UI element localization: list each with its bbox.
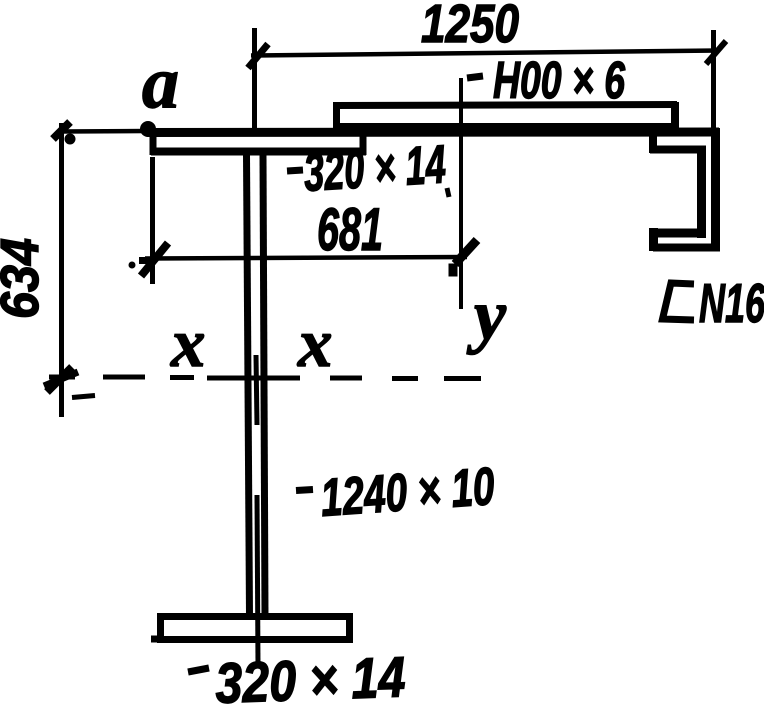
plate web 1240x10: left line	[247, 155, 250, 616]
wire bottom flange lower-left overshoot	[151, 636, 162, 643]
label dash of -1240x10	[296, 490, 313, 491]
svg-text:x: x	[297, 305, 333, 381]
node tick bottom 634	[47, 367, 72, 392]
plate brake sheet bottom line	[340, 123, 674, 128]
plate brake sheet left edge	[333, 102, 340, 131]
svg-text:N16: N16	[699, 272, 764, 334]
node point a dot	[140, 121, 156, 137]
wire extension line left of 1250	[252, 28, 257, 131]
svg-text:634: 634	[0, 238, 50, 319]
node tick left 1250	[248, 44, 268, 68]
node tick left 681	[141, 243, 168, 276]
wire web centre overdraw line	[256, 355, 257, 425]
wire connector from 634 line to point a	[61, 129, 146, 134]
channel symbol bracket of C N16 label	[663, 283, 695, 320]
channel C N16: top flange bottom line	[650, 146, 706, 154]
svg-text:681: 681	[317, 196, 383, 263]
channel C N16: bottom flange bottom line	[653, 244, 720, 252]
plate brake sheet 400x6: top line	[336, 105, 677, 106]
svg-text:x: x	[170, 305, 206, 381]
plate top flange left edge	[150, 128, 157, 155]
channel C N16: bottom flange left edge	[649, 228, 658, 251]
svg-text:1240 × 10: 1240 × 10	[319, 457, 497, 528]
plate web 1240x10: right line	[263, 155, 265, 616]
channel C N16: bottom flange top line	[650, 229, 703, 238]
label dash of top -320x14	[287, 170, 303, 171]
plate top flange 320x14: top line (continues to channel)	[147, 128, 719, 138]
svg-text:320 × 14: 320 × 14	[302, 134, 447, 203]
node tick right 681	[455, 240, 477, 264]
node tick top 634	[53, 122, 70, 139]
plate top flange 320x14: bottom line	[151, 148, 366, 156]
plate bottom flange 320x14 rectangle	[161, 617, 350, 640]
svg-text:1250: 1250	[421, 0, 519, 54]
wire extension line right of 681	[459, 78, 463, 309]
wire extension line left of 681	[150, 157, 155, 284]
axis x-x dashed line	[49, 375, 75, 380]
channel C N16: top flange left edge	[649, 135, 657, 153]
svg-text:320 × 14: 320 × 14	[214, 645, 406, 704]
wire extension line right of 1250	[711, 30, 716, 128]
label dash of -400x6	[467, 76, 483, 78]
channel C N16: web	[697, 150, 706, 238]
svg-text:H00 × 6: H00 × 6	[493, 52, 626, 110]
wire dimension line 681	[145, 257, 467, 259]
svg-text:a: a	[142, 42, 179, 124]
plate top flange right edge	[360, 136, 367, 155]
plate brake sheet right edge step	[671, 102, 679, 130]
label comma after top 320x14	[447, 188, 449, 197]
wire dimension line 634 vertical	[59, 123, 64, 417]
wire web centre leader through bottom flange	[257, 495, 258, 666]
node tick right 1250	[706, 41, 726, 64]
wire dimension line 1250	[251, 51, 719, 56]
label dash of bottom -320x14	[188, 668, 209, 672]
channel C N16: outer right edge	[711, 128, 720, 251]
